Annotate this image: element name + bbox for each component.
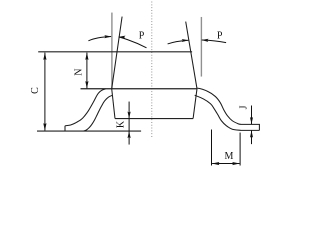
- lead-exit line: [81, 88, 197, 90]
- J dimension upper line: [251, 106, 253, 125]
- body lower-left slant: [112, 89, 115, 119]
- svg-text:P: P: [139, 31, 145, 42]
- J arrow down: [250, 117, 253, 124]
- body upper-right slant: [186, 22, 197, 89]
- left P right arrowhead: [118, 36, 125, 39]
- right P right arrowhead: [201, 39, 208, 42]
- right lead (gull wing) outer edge: [197, 88, 260, 130]
- left lead (gull wing) outer edge: [65, 89, 106, 131]
- M left extension line: [211, 130, 213, 166]
- J arrow up: [250, 131, 253, 138]
- K arrow up: [128, 131, 131, 138]
- seating plane line: [37, 130, 141, 132]
- svg-text:J: J: [239, 105, 250, 109]
- K arrow down: [128, 111, 131, 118]
- C dimension line: [44, 53, 46, 131]
- right P left arrowhead: [182, 39, 189, 42]
- right vertical reference line: [200, 17, 202, 77]
- J dimension lower line: [251, 131, 253, 145]
- svg-text:C: C: [30, 87, 41, 94]
- right P leader right arc: [202, 40, 226, 43]
- svg-text:P: P: [217, 30, 223, 41]
- left P leader right arc: [119, 37, 147, 48]
- top extension line: [38, 51, 192, 53]
- M right extension line: [239, 133, 241, 166]
- body upper-left slant: [112, 17, 122, 89]
- body bottom line: [115, 118, 193, 120]
- svg-text:N: N: [74, 69, 85, 76]
- left lead inner edge: [83, 95, 112, 131]
- K dimension line: [128, 102, 130, 145]
- svg-text:K: K: [115, 120, 126, 128]
- left P left arrowhead: [104, 35, 111, 38]
- N dimension line: [86, 53, 88, 89]
- M dimension arrow: [212, 163, 239, 165]
- right P leader left arc: [168, 40, 189, 44]
- body lower-right slant: [193, 89, 197, 119]
- centerline: [151, 2, 153, 139]
- right lead inner edge: [195, 95, 260, 130]
- left P leader left arc: [88, 37, 111, 41]
- left vertical reference line: [111, 13, 113, 89]
- svg-text:M: M: [225, 151, 234, 162]
